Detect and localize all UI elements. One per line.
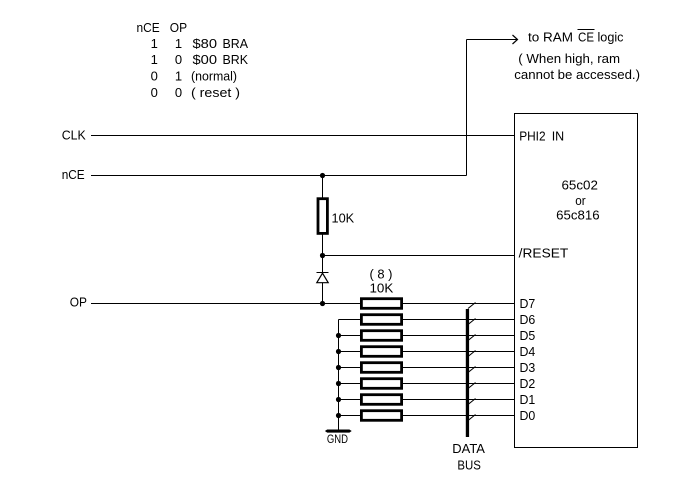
svg-text:logic: logic xyxy=(598,30,624,45)
svg-text:( When high, ram: ( When high, ram xyxy=(518,51,620,66)
arrowhead xyxy=(513,35,518,44)
resistor RN2 (D6) xyxy=(361,315,401,325)
bus slash D7 xyxy=(468,303,476,421)
wire D5 xyxy=(403,335,514,337)
resistor RN3 (D5) xyxy=(361,331,401,341)
ground symbol xyxy=(325,430,352,433)
svg-text:nCE: nCE xyxy=(62,167,85,182)
svg-text:to RAM: to RAM xyxy=(528,30,573,45)
wire D7 xyxy=(403,303,514,305)
svg-text:nCE: nCE xyxy=(137,20,160,35)
resistor array RN1..RN8 xyxy=(361,299,401,421)
CPU U1 65c02/65c816 box xyxy=(515,114,638,448)
resistor RN6 (D2) xyxy=(361,379,401,389)
resistor RN7 (D1) xyxy=(361,395,401,405)
wire D6 xyxy=(403,319,514,321)
truth table row 2: 1 0 $00 BRK xyxy=(151,52,249,67)
svg-text:1: 1 xyxy=(151,52,158,67)
svg-text:D7: D7 xyxy=(520,296,536,311)
wires array right side to CPU pins xyxy=(403,304,514,416)
wire nCE junction down to R1 xyxy=(322,176,324,199)
svg-text:0: 0 xyxy=(151,69,158,84)
svg-text:BUS: BUS xyxy=(457,458,481,473)
wire RN8 left xyxy=(339,415,362,417)
wire D2 xyxy=(403,383,514,385)
wire diode to OP line xyxy=(322,283,324,304)
svg-text:65c816: 65c816 xyxy=(556,208,599,223)
svg-text:or: or xyxy=(575,193,586,208)
data bus trunk xyxy=(466,309,469,437)
svg-text:D2: D2 xyxy=(520,376,536,391)
svg-text:10K: 10K xyxy=(332,211,355,226)
truth table row 1: 1 1 $80 BRA xyxy=(151,36,249,51)
overline on CE xyxy=(578,29,595,31)
wire RN4 left xyxy=(339,351,362,353)
svg-text:DATA: DATA xyxy=(452,441,485,456)
wires array left side to ground rail xyxy=(339,320,362,431)
junction at /RESET node xyxy=(320,253,325,258)
resistor RN8 (D0) xyxy=(361,411,401,421)
svg-text:OP: OP xyxy=(70,295,87,310)
junction OP / diode xyxy=(320,301,325,306)
bus slash D4 xyxy=(468,351,476,357)
svg-text:0: 0 xyxy=(175,52,182,67)
bus slash D1 xyxy=(468,399,476,405)
svg-text:$80: $80 xyxy=(193,36,218,51)
svg-text:D4: D4 xyxy=(520,344,536,359)
junctions on ground rail xyxy=(336,333,341,418)
svg-text:(normal): (normal) xyxy=(191,69,237,84)
wire RN7 left xyxy=(339,399,362,401)
svg-text:GND: GND xyxy=(327,434,348,446)
wire RN2 left xyxy=(339,319,362,321)
svg-text:cannot be accessed.): cannot be accessed.) xyxy=(514,67,640,82)
bus slash D6 xyxy=(468,319,476,325)
svg-text:D3: D3 xyxy=(520,360,536,375)
wire RN3 left xyxy=(339,335,362,337)
svg-text:D0: D0 xyxy=(520,408,536,423)
wire D3 xyxy=(403,367,514,369)
ground rail vertical xyxy=(338,320,340,431)
svg-text:1: 1 xyxy=(175,36,182,51)
svg-text:BRK: BRK xyxy=(223,52,249,67)
bus slash D0 xyxy=(468,415,476,421)
diode D1 cathode bar xyxy=(317,272,329,274)
svg-text:1: 1 xyxy=(175,69,182,84)
svg-text:65c02: 65c02 xyxy=(562,177,598,192)
svg-text:$00: $00 xyxy=(193,52,218,67)
wire junction down to diode xyxy=(322,256,324,273)
svg-text:IN: IN xyxy=(552,128,565,143)
svg-text:10K: 10K xyxy=(370,280,394,295)
svg-text:BRA: BRA xyxy=(223,36,249,51)
resistor RN4 (D4) xyxy=(361,347,401,357)
svg-text:CLK: CLK xyxy=(62,127,86,142)
svg-text:CE: CE xyxy=(578,30,594,45)
truth table row 3: 0 1 (normal) xyxy=(151,69,237,84)
wire D1 xyxy=(403,399,514,401)
svg-text:PHI2: PHI2 xyxy=(519,128,545,143)
wire RN5 left xyxy=(339,367,362,369)
wire R1 to junction xyxy=(322,235,324,257)
wire RN6 left xyxy=(339,383,362,385)
svg-text:D6: D6 xyxy=(520,312,536,327)
bus slash D2 xyxy=(468,383,476,389)
svg-text:OP: OP xyxy=(170,20,187,35)
resistor R1 10K vertical xyxy=(318,199,327,234)
wire to /RESET pin xyxy=(323,255,515,257)
wire D0 xyxy=(403,415,514,417)
diode D1 triangle xyxy=(317,273,328,283)
svg-text:0: 0 xyxy=(175,85,182,100)
resistor RN1 (D7) xyxy=(361,299,401,309)
wire D4 xyxy=(403,351,514,353)
svg-text:( reset ): ( reset ) xyxy=(191,85,240,100)
truth table row 4: 0 0 ( reset ) xyxy=(151,85,240,100)
bus slash D3 xyxy=(468,367,476,373)
wire nCE xyxy=(91,175,467,177)
bus slash D5 xyxy=(468,335,476,341)
svg-text:D5: D5 xyxy=(520,328,536,343)
junction on nCE xyxy=(320,173,325,178)
svg-text:1: 1 xyxy=(151,36,158,51)
svg-text:/RESET: /RESET xyxy=(519,246,569,261)
wire: arrow to RAM CE logic xyxy=(467,40,518,176)
resistor RN5 (D3) xyxy=(361,363,401,373)
wire OP xyxy=(91,303,361,305)
svg-text:D1: D1 xyxy=(520,392,536,407)
svg-text:0: 0 xyxy=(151,85,158,100)
wire CLK to PHI2 IN xyxy=(91,135,514,137)
